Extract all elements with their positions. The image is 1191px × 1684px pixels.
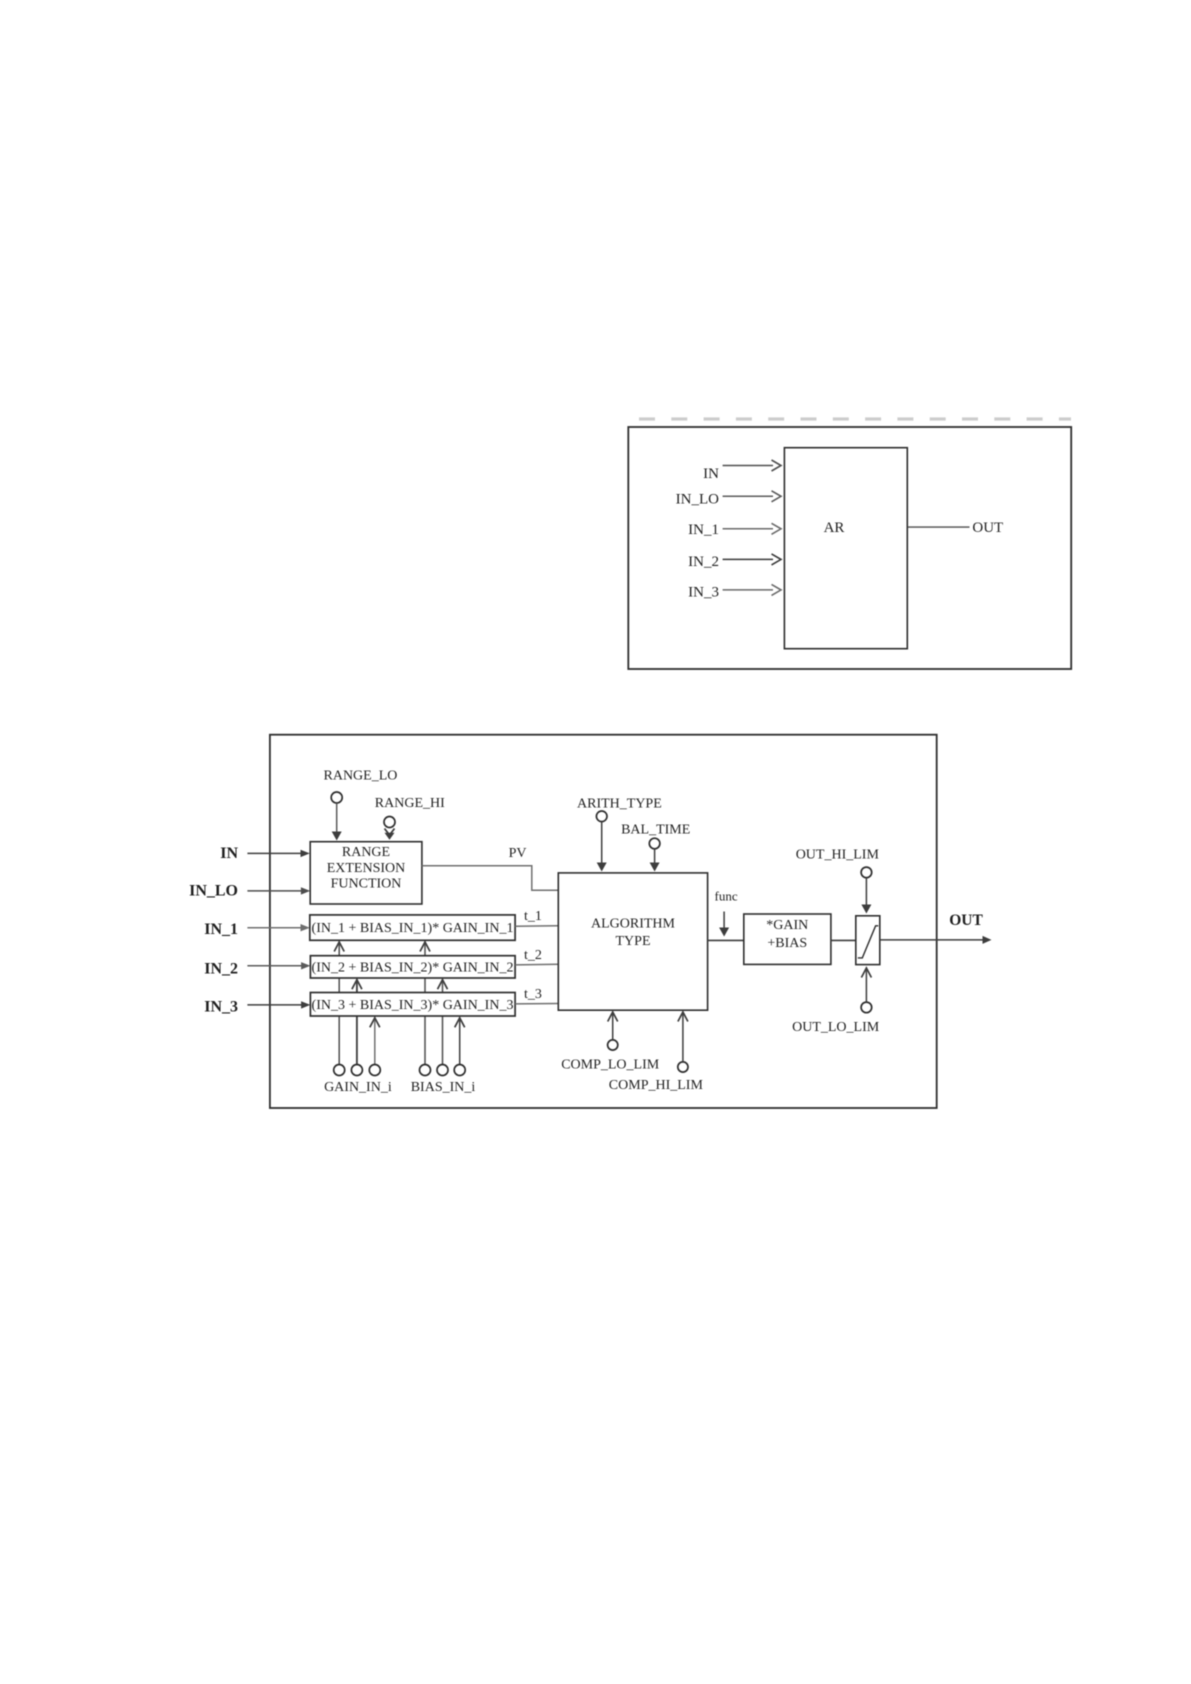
wire RANGE_LO arrow	[332, 803, 342, 840]
frame: arithmetic internal structure diagram border	[270, 735, 937, 1108]
svg-text:AR: AR	[824, 520, 845, 536]
label RANGE EXTENSION FUNCTION	[327, 845, 406, 892]
svg-text:IN_2: IN_2	[204, 960, 238, 977]
wire GAIN_IN_1 vertical with arrowhead	[334, 942, 344, 1065]
port circle RANGE_HI	[384, 817, 395, 828]
parameter label COMP_LO_LIM	[561, 1057, 660, 1072]
svg-text:IN_2: IN_2	[688, 554, 719, 570]
label formula 3	[312, 998, 514, 1013]
node IN_2 (lower diagram)	[204, 960, 238, 977]
block ALGORITHM TYPE	[558, 873, 707, 1010]
wire GAIN_IN_2 vertical with arrowhead	[352, 979, 362, 1064]
block *GAIN +BIAS	[744, 914, 831, 964]
wire IN_1 input arrow	[723, 523, 781, 534]
label t_1	[524, 909, 542, 924]
node IN_1 (top diagram)	[688, 522, 719, 538]
wire t_2	[515, 963, 558, 966]
wire t_1	[515, 925, 558, 928]
wire IN_LO input arrow	[723, 491, 781, 502]
svg-text:RANGE_LO: RANGE_LO	[324, 769, 398, 784]
label func	[715, 889, 738, 904]
label t_3	[524, 987, 542, 1002]
node IN_LO (top diagram)	[676, 491, 719, 507]
parameter label RANGE_HI	[375, 796, 445, 811]
wire ARITH_TYPE arrow	[597, 822, 607, 872]
wire gain block to limiter	[831, 939, 856, 941]
wire BIAS_IN_2 vertical with arrowhead	[438, 979, 448, 1064]
node OUT (top diagram)	[972, 520, 1003, 536]
port circle GAIN_IN_3	[369, 1065, 380, 1076]
port circle BIAS_IN_2	[437, 1065, 448, 1076]
port circle BIAS_IN_3	[454, 1065, 465, 1076]
label *GAIN +BIAS	[766, 918, 808, 951]
svg-text:IN: IN	[703, 466, 719, 482]
symbol limiter saturation curve	[858, 926, 879, 958]
svg-text:ALGORITHM: ALGORITHM	[591, 916, 676, 931]
wire ALGORITHM TYPE output to gain block	[708, 939, 744, 941]
svg-text:IN: IN	[220, 845, 238, 862]
svg-text:OUT_HI_LIM: OUT_HI_LIM	[796, 847, 880, 862]
port circle OUT_LO_LIM	[861, 1002, 872, 1013]
label formula 2	[312, 960, 514, 975]
wire PV stepped	[422, 866, 558, 890]
frame: AR block overview diagram border	[628, 427, 1071, 669]
parameter label ARITH_TYPE	[577, 797, 662, 812]
node OUT (lower diagram)	[949, 912, 983, 929]
parameter label COMP_HI_LIM	[609, 1078, 704, 1093]
svg-text:COMP_HI_LIM: COMP_HI_LIM	[609, 1078, 704, 1093]
wire IN_3 input arrow	[723, 584, 781, 595]
parameter label RANGE_LO	[324, 769, 398, 784]
svg-text:IN_LO: IN_LO	[189, 883, 238, 900]
svg-text:IN_1: IN_1	[204, 921, 238, 938]
port circle COMP_HI_LIM	[678, 1062, 688, 1072]
port circle OUT_HI_LIM	[861, 867, 872, 878]
wire IN_2 input arrow	[247, 962, 310, 969]
wire IN input arrow	[723, 460, 781, 471]
wire IN_2 input arrow	[723, 554, 781, 565]
svg-text:IN_1: IN_1	[688, 522, 719, 538]
wire OUT_LO_LIM arrow	[861, 968, 871, 1002]
label t_2	[524, 948, 542, 963]
wire BIAS_IN_3 vertical with arrowhead	[455, 1017, 465, 1064]
parameter label BAL_TIME	[621, 823, 690, 838]
svg-text:(IN_3 + BIAS_IN_3)* GAIN_IN_3: (IN_3 + BIAS_IN_3)* GAIN_IN_3	[312, 998, 514, 1013]
parameter label OUT_LO_LIM	[792, 1020, 880, 1035]
svg-text:(IN_2 + BIAS_IN_2)* GAIN_IN_2: (IN_2 + BIAS_IN_2)* GAIN_IN_2	[312, 960, 514, 975]
port circle ARITH_TYPE	[596, 811, 607, 822]
port circle RANGE_LO	[331, 792, 342, 803]
port circle BAL_TIME	[649, 838, 660, 849]
wire IN_1 input arrow	[247, 924, 309, 931]
label formula 1	[312, 921, 514, 936]
port circle GAIN_IN_1	[334, 1065, 345, 1076]
label PV	[509, 846, 527, 861]
svg-text:BIAS_IN_i: BIAS_IN_i	[411, 1080, 476, 1095]
svg-text:t_1: t_1	[524, 909, 542, 924]
wire GAIN_IN_3 vertical with arrowhead	[370, 1017, 380, 1064]
node IN_2 (top diagram)	[688, 554, 719, 570]
wire RANGE_HI double-chevron arrow	[385, 829, 395, 840]
wire BAL_TIME arrow	[650, 849, 660, 872]
wire t_3	[515, 1003, 558, 1005]
wire IN_LO input arrow	[247, 887, 310, 894]
svg-text:*GAIN: *GAIN	[766, 918, 808, 933]
svg-text:TYPE: TYPE	[616, 934, 651, 949]
svg-text:OUT: OUT	[972, 520, 1003, 536]
svg-text:OUT: OUT	[949, 912, 983, 929]
node IN (lower diagram)	[220, 845, 238, 862]
wire COMP_LO_LIM arrow	[608, 1012, 618, 1040]
label BIAS_IN_i	[411, 1080, 476, 1095]
block formula 1 (IN_1 + BIAS_IN_1)* GAIN_IN_1	[310, 915, 515, 940]
wire IN input arrow	[247, 850, 309, 857]
node IN_1 (lower diagram)	[204, 921, 238, 938]
block U1 AR function block	[784, 448, 907, 649]
label AR	[824, 520, 845, 536]
svg-text:OUT_LO_LIM: OUT_LO_LIM	[792, 1020, 880, 1035]
svg-text:FUNCTION: FUNCTION	[331, 877, 402, 892]
svg-text:RANGE_HI: RANGE_HI	[375, 796, 445, 811]
wire COMP_HI_LIM arrow	[678, 1012, 688, 1062]
svg-text:func: func	[715, 889, 738, 904]
wire OUT (top diagram)	[908, 526, 970, 528]
wire BIAS_IN_1 vertical with arrowhead	[420, 942, 430, 1065]
svg-text:IN_3: IN_3	[688, 585, 719, 601]
block formula 2 (IN_2 + BIAS_IN_2)* GAIN_IN_2	[310, 956, 515, 978]
label GAIN_IN_i	[324, 1080, 392, 1095]
port circle COMP_LO_LIM	[608, 1040, 618, 1050]
svg-text:t_3: t_3	[524, 987, 542, 1002]
node IN_3 (top diagram)	[688, 585, 719, 601]
wire func arrow	[719, 912, 729, 937]
svg-text:t_2: t_2	[524, 948, 542, 963]
block RANGE EXTENSION FUNCTION	[310, 842, 422, 904]
svg-text:COMP_LO_LIM: COMP_LO_LIM	[561, 1057, 660, 1072]
svg-text:EXTENSION: EXTENSION	[327, 861, 406, 876]
svg-text:BAL_TIME: BAL_TIME	[621, 823, 690, 838]
svg-text:PV: PV	[509, 846, 527, 861]
svg-text:IN_LO: IN_LO	[676, 491, 719, 507]
block formula 3 (IN_3 + BIAS_IN_3)* GAIN_IN_3	[310, 993, 515, 1017]
parameter label OUT_HI_LIM	[796, 847, 880, 862]
node IN (top diagram)	[703, 466, 719, 482]
port circle BIAS_IN_1	[420, 1065, 431, 1076]
label ALGORITHM TYPE	[591, 916, 676, 949]
wire OUT_HI_LIM arrow	[861, 878, 871, 914]
port circle GAIN_IN_2	[351, 1065, 362, 1076]
svg-text:RANGE: RANGE	[342, 845, 390, 860]
node IN_3 (lower diagram)	[204, 998, 238, 1015]
block output limiter	[856, 916, 880, 965]
svg-text:ARITH_TYPE: ARITH_TYPE	[577, 797, 662, 812]
svg-text:(IN_1 + BIAS_IN_1)* GAIN_IN_1: (IN_1 + BIAS_IN_1)* GAIN_IN_1	[312, 921, 514, 936]
node IN_LO (lower diagram)	[189, 883, 238, 900]
svg-text:GAIN_IN_i: GAIN_IN_i	[324, 1080, 392, 1095]
wire OUT output with arrowhead (lower diagram)	[880, 936, 992, 944]
svg-text:IN_3: IN_3	[204, 998, 238, 1015]
svg-text:+BIAS: +BIAS	[767, 936, 807, 951]
wire IN_3 input arrow	[247, 1001, 310, 1008]
